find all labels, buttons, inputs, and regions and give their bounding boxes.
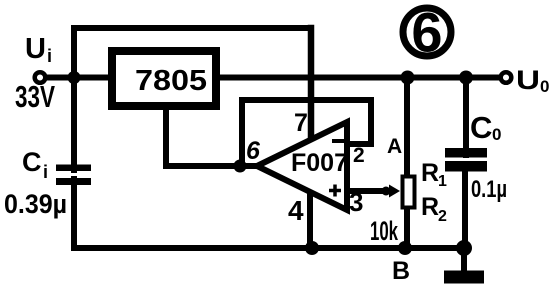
svg-text:U: U	[516, 65, 540, 95]
svg-text:6: 6	[411, 1, 442, 64]
svg-text:4: 4	[288, 195, 304, 226]
svg-text:B: B	[392, 257, 410, 285]
svg-text:i: i	[47, 46, 52, 66]
svg-text:C: C	[470, 110, 492, 145]
svg-text:2: 2	[353, 144, 365, 167]
svg-text:10k: 10k	[370, 216, 399, 246]
svg-text:6: 6	[246, 137, 261, 165]
svg-text:1: 1	[438, 173, 447, 190]
svg-text:33V: 33V	[15, 79, 55, 114]
svg-text:R: R	[421, 193, 439, 221]
svg-text:0.39µ: 0.39µ	[4, 189, 67, 219]
svg-text:U: U	[25, 33, 46, 65]
svg-text:2: 2	[438, 208, 447, 225]
svg-text:C: C	[22, 147, 42, 177]
svg-text:F007: F007	[291, 149, 348, 177]
svg-text:i: i	[43, 162, 48, 182]
svg-text:3: 3	[349, 187, 363, 217]
svg-text:0.1µ: 0.1µ	[471, 176, 507, 203]
svg-text:R: R	[421, 159, 439, 187]
svg-text:0: 0	[492, 125, 501, 144]
svg-text:7805: 7805	[135, 65, 207, 97]
svg-text:A: A	[387, 135, 402, 158]
svg-text:7: 7	[294, 109, 308, 137]
svg-text:0: 0	[540, 77, 549, 96]
